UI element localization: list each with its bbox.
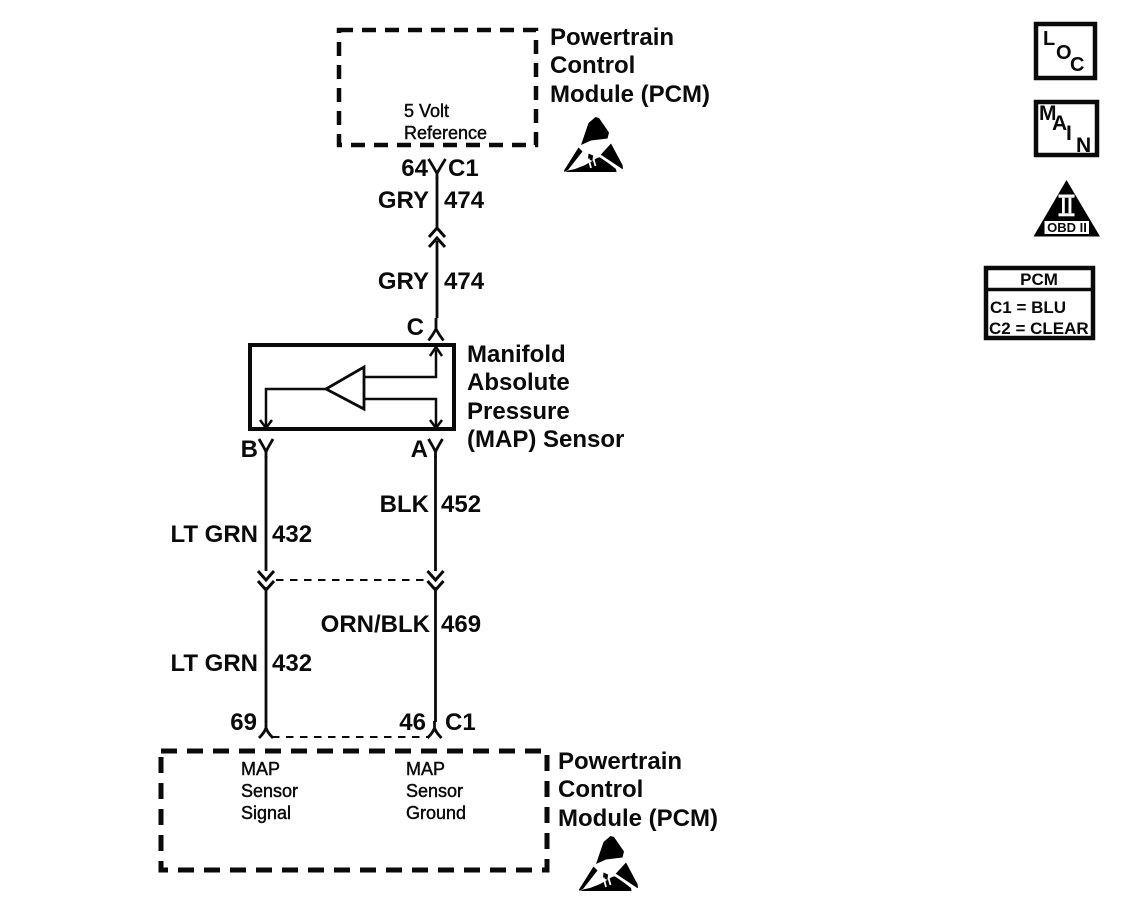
PCM bottom dashed box — [161, 751, 547, 870]
svg-text:N: N — [1076, 134, 1091, 157]
svg-text:A: A — [1052, 112, 1067, 135]
svg-text:GRY: GRY — [378, 187, 429, 214]
svg-text:ORN/BLK: ORN/BLK — [321, 611, 431, 638]
svg-text:OBD II: OBD II — [1047, 220, 1087, 235]
svg-text:C: C — [407, 314, 424, 341]
svg-text:MAP: MAP — [241, 759, 280, 779]
LOC symbol box — [1036, 24, 1095, 78]
svg-text:C1 = BLU: C1 = BLU — [990, 298, 1066, 317]
svg-text:MAP: MAP — [406, 759, 445, 779]
svg-text:C: C — [1070, 54, 1084, 76]
svg-text:64: 64 — [401, 155, 428, 182]
in-line connector chevrons on GRY wire — [429, 228, 445, 237]
svg-text:PCM: PCM — [1020, 270, 1058, 289]
wire GRY 474 lower segment — [436, 241, 439, 318]
OBD II symbol (triangle) — [1034, 180, 1101, 237]
svg-text:Signal: Signal — [241, 803, 291, 823]
in-line connector chevrons right — [428, 571, 444, 580]
MAP sensor internal amplifier triangle — [326, 367, 364, 409]
svg-text:L: L — [1043, 28, 1055, 50]
wire BLK 452 — [434, 456, 437, 571]
svg-text:Powertrain: Powertrain — [550, 24, 674, 51]
svg-text:432: 432 — [272, 521, 312, 548]
svg-text:GRY: GRY — [378, 268, 429, 295]
connector fork at PCM pin 64 — [429, 159, 446, 179]
svg-text:Pressure: Pressure — [467, 398, 570, 425]
svg-text:46: 46 — [399, 709, 426, 736]
dashed connector line between in-line connectors — [276, 579, 426, 581]
svg-text:Sensor: Sensor — [406, 781, 463, 801]
svg-text:A: A — [411, 436, 428, 463]
svg-text:C1: C1 — [445, 709, 476, 736]
svg-text:(MAP) Sensor: (MAP) Sensor — [467, 426, 624, 453]
connector fork at PCM pin 69 — [259, 721, 273, 738]
svg-text:C1: C1 — [448, 155, 479, 182]
connector fork at MAP sensor pin C — [429, 318, 444, 341]
wire GRY 474 upper segment — [436, 177, 439, 227]
MAIN symbol box — [1036, 102, 1097, 155]
svg-text:I: I — [1066, 122, 1072, 145]
svg-text:Module (PCM): Module (PCM) — [550, 81, 710, 108]
dashed connector face line at bottom PCM — [272, 736, 428, 738]
svg-text:69: 69 — [230, 709, 257, 736]
svg-text:452: 452 — [441, 491, 481, 518]
svg-text:474: 474 — [444, 187, 485, 214]
ESD symbol top — [564, 117, 623, 172]
connector fork at PCM pin 46 — [428, 721, 442, 738]
MAP sensor box — [250, 345, 454, 429]
PCM connector legend box — [986, 268, 1093, 338]
PCM top dashed box — [339, 30, 536, 145]
svg-text:Module (PCM): Module (PCM) — [558, 805, 718, 832]
connector fork at pin A — [429, 439, 443, 458]
svg-text:469: 469 — [441, 611, 481, 638]
svg-text:5 Volt: 5 Volt — [404, 101, 449, 121]
legend divider line — [986, 288, 1093, 292]
svg-text:B: B — [241, 436, 258, 463]
wire LT GRN 432 upper segment — [265, 456, 268, 571]
svg-text:474: 474 — [444, 268, 485, 295]
svg-text:Powertrain: Powertrain — [558, 748, 682, 775]
svg-text:432: 432 — [272, 650, 312, 677]
svg-text:LT GRN: LT GRN — [170, 650, 258, 677]
in-line connector chevrons left — [258, 571, 274, 580]
wire ORN/BLK 469 lower segment — [434, 587, 437, 722]
svg-text:Reference: Reference — [404, 123, 487, 143]
connector fork at pin B — [259, 439, 273, 458]
svg-text:Control: Control — [550, 52, 635, 79]
internal wire to pin C with arrow — [364, 350, 436, 377]
wire LT GRN 432 lower segment — [265, 587, 268, 722]
svg-text:Ground: Ground — [406, 803, 466, 823]
svg-text:Sensor: Sensor — [241, 781, 298, 801]
svg-text:Manifold: Manifold — [467, 341, 566, 368]
svg-text:BLK: BLK — [380, 491, 430, 518]
svg-text:LT GRN: LT GRN — [170, 521, 258, 548]
svg-text:C2 = CLEAR: C2 = CLEAR — [989, 319, 1089, 338]
svg-text:Control: Control — [558, 776, 643, 803]
internal wire to pin B with arrow — [266, 389, 326, 426]
internal wire to pin A with arrow — [364, 399, 436, 426]
ESD symbol bottom — [579, 836, 638, 891]
svg-text:Absolute: Absolute — [467, 369, 570, 396]
